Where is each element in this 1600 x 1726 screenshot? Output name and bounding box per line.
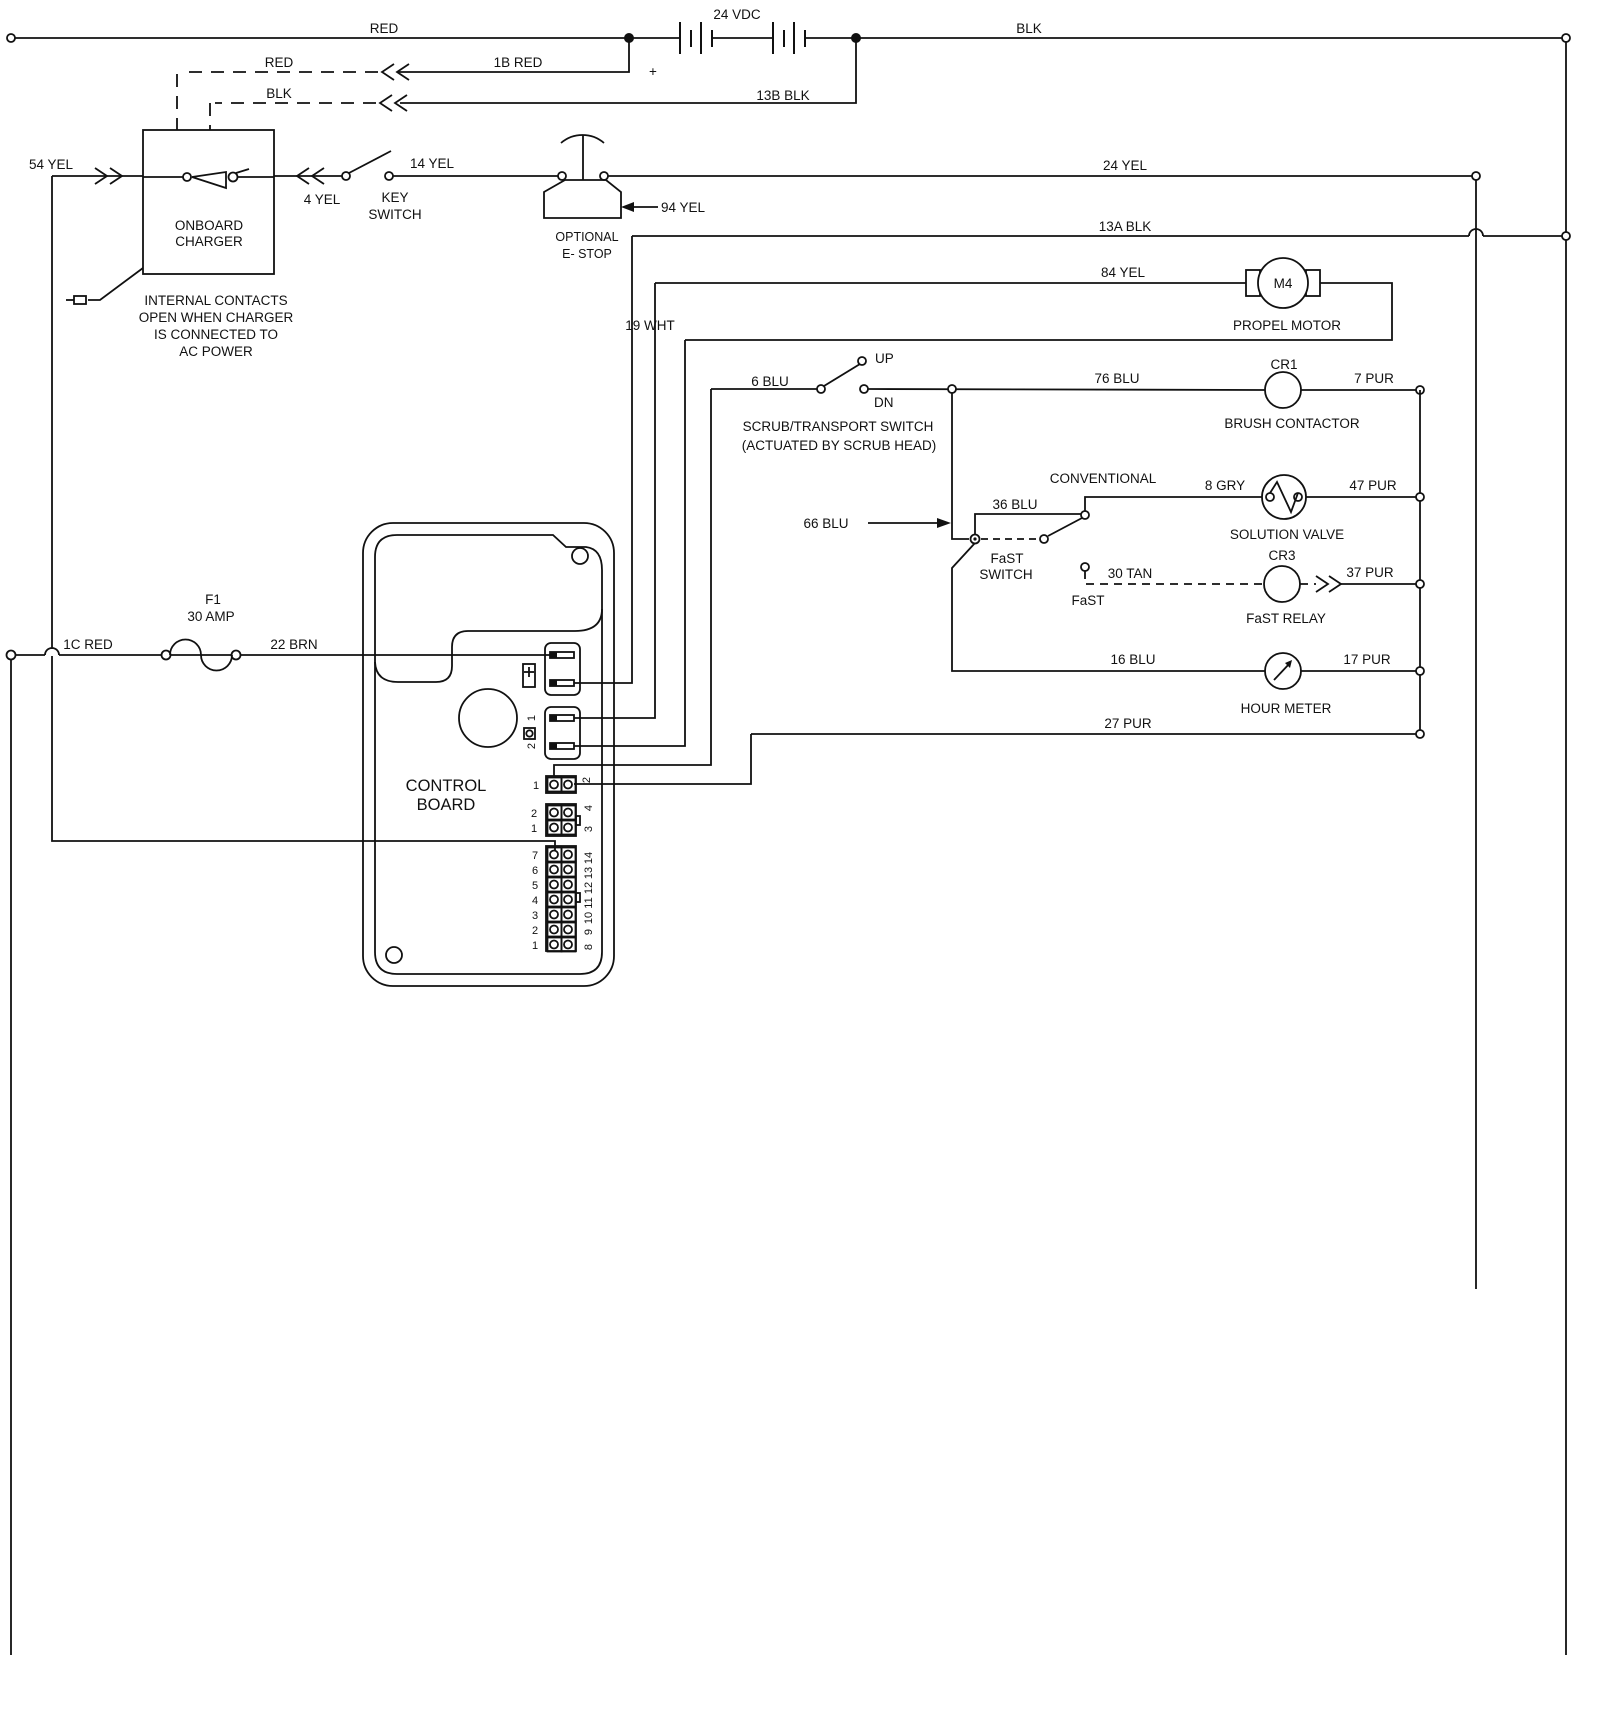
svg-text:4: 4 <box>583 805 595 811</box>
svg-text:7 PUR: 7 PUR <box>1354 371 1394 386</box>
svg-text:8 GRY: 8 GRY <box>1205 478 1245 493</box>
svg-text:3: 3 <box>532 910 538 922</box>
FaST relay coil CR3 <box>1264 566 1300 602</box>
svg-text:14 YEL: 14 YEL <box>410 156 455 171</box>
wire 14 YEL <box>393 175 558 177</box>
wire 24 YEL <box>608 175 1476 177</box>
wire 6 BLU <box>711 388 817 390</box>
svg-text:DN: DN <box>874 395 894 410</box>
wire 76 BLU <box>868 389 1265 390</box>
svg-text:12: 12 <box>583 882 595 894</box>
node 1C RED terminal <box>7 651 16 660</box>
svg-text:RED: RED <box>265 55 294 70</box>
node left top terminal <box>7 34 15 42</box>
svg-text:17 PUR: 17 PUR <box>1343 652 1391 667</box>
svg-text:OPEN WHEN CHARGER: OPEN WHEN CHARGER <box>139 310 294 325</box>
svg-text:SOLUTION VALVE: SOLUTION VALVE <box>1230 527 1344 542</box>
battery B2 24VDC <box>773 22 805 54</box>
battery B1 24VDC <box>680 22 712 54</box>
svg-text:4 YEL: 4 YEL <box>304 192 341 207</box>
svg-text:E- STOP: E- STOP <box>562 247 612 261</box>
svg-text:4: 4 <box>532 895 538 907</box>
wire RED dashed to charger <box>177 72 378 130</box>
svg-text:7: 7 <box>532 850 538 862</box>
svg-text:SWITCH: SWITCH <box>368 207 421 222</box>
svg-text:84 YEL: 84 YEL <box>1101 265 1146 280</box>
svg-text:BLK: BLK <box>1016 21 1042 36</box>
brush contactor coil CR1 <box>1265 372 1301 408</box>
svg-text:OPTIONAL: OPTIONAL <box>555 230 618 244</box>
wire 30 TAN FaST tap <box>1081 563 1089 571</box>
wire 24 YEL vertical bus <box>1475 180 1477 1289</box>
connector J1 <box>545 643 580 695</box>
wire 22 BRN <box>15 654 550 656</box>
wire 4 YEL chevrons <box>297 168 309 184</box>
wire BLK top bus right segment <box>805 37 1566 39</box>
wire 13B BLK chevrons <box>380 95 392 111</box>
LED symbol <box>524 728 535 739</box>
wire 84 YEL vertical to J2.1 <box>574 283 655 718</box>
scrub/transport switch S2 <box>817 385 825 393</box>
svg-text:CONVENTIONAL: CONVENTIONAL <box>1050 471 1157 486</box>
hour meter HM1 <box>1265 653 1301 689</box>
wire right border vertical 13 BLK bus <box>1565 42 1567 1655</box>
svg-text:13: 13 <box>583 867 595 879</box>
wire 13A BLK vertical to J1.2 <box>574 236 632 683</box>
svg-text:2: 2 <box>531 808 537 820</box>
wire 66 BLU pointer <box>868 522 938 524</box>
svg-text:BRUSH CONTACTOR: BRUSH CONTACTOR <box>1224 416 1360 431</box>
svg-text:+: + <box>649 64 657 79</box>
AC plug symbol <box>74 296 86 304</box>
connector J3 <box>546 776 576 793</box>
wire 94 YEL pointer <box>621 202 634 212</box>
propel motor M4 <box>1246 270 1260 296</box>
svg-text:22 BRN: 22 BRN <box>270 637 317 652</box>
svg-text:F1: F1 <box>205 592 221 607</box>
wire 19 WHT loop <box>685 283 1392 340</box>
svg-text:M4: M4 <box>1274 276 1293 291</box>
svg-text:CR3: CR3 <box>1268 548 1295 563</box>
svg-text:2: 2 <box>581 777 593 783</box>
wire 54 YEL chevrons <box>95 168 107 184</box>
key switch S1 <box>342 172 350 180</box>
wire 36 BLU <box>975 514 1081 535</box>
svg-text:16 BLU: 16 BLU <box>1110 652 1155 667</box>
svg-text:INTERNAL CONTACTS: INTERNAL CONTACTS <box>144 293 287 308</box>
wire 4 YEL <box>274 175 342 177</box>
svg-text:6: 6 <box>532 865 538 877</box>
solution valve SV1 <box>1262 475 1306 519</box>
svg-text:ONBOARD: ONBOARD <box>175 218 244 233</box>
svg-text:CR1: CR1 <box>1270 357 1297 372</box>
svg-text:13B BLK: 13B BLK <box>756 88 809 103</box>
svg-text:2: 2 <box>526 743 538 749</box>
svg-text:36 BLU: 36 BLU <box>992 497 1037 512</box>
mounting hole top right <box>572 548 588 564</box>
node 17 PUR junction <box>1416 667 1424 675</box>
svg-text:9: 9 <box>583 929 595 935</box>
node scrub DN junction <box>948 385 956 393</box>
node 24 YEL corner <box>1472 172 1480 180</box>
wire 6 BLU vertical to J3.1 <box>554 389 711 776</box>
svg-text:8: 8 <box>583 944 595 950</box>
svg-text:14: 14 <box>583 852 595 864</box>
node 13A BLK terminal <box>1562 232 1570 240</box>
wire 7 PUR <box>1301 389 1420 391</box>
connector J5 <box>546 846 576 951</box>
wire left border vertical <box>10 659 12 1655</box>
svg-text:66 BLU: 66 BLU <box>803 516 848 531</box>
wire 37 PUR <box>1300 583 1316 585</box>
wire 8 GRY <box>1085 497 1262 511</box>
svg-text:1: 1 <box>533 780 539 792</box>
svg-text:UP: UP <box>875 351 894 366</box>
svg-text:6 BLU: 6 BLU <box>751 374 789 389</box>
svg-text:FaST: FaST <box>990 551 1023 566</box>
hop 22 BRN over 54YEL vertical <box>45 649 59 656</box>
svg-text:CONTROL: CONTROL <box>406 777 487 795</box>
FaST switch S3 <box>981 538 1039 540</box>
wire 13B BLK <box>400 38 856 103</box>
wire 1B RED chevrons <box>382 64 394 80</box>
onboard charger box U10 <box>143 130 274 274</box>
svg-text:10: 10 <box>583 912 595 924</box>
svg-text:30 AMP: 30 AMP <box>187 609 234 624</box>
optional E-stop switch <box>558 172 566 180</box>
svg-text:CHARGER: CHARGER <box>175 234 243 249</box>
wire 17 PUR <box>1301 670 1420 672</box>
node 37 PUR junction <box>1416 580 1424 588</box>
wire 54 YEL <box>52 175 143 177</box>
wire 54 YEL vertical drop <box>52 176 555 850</box>
hop 13A BLK over 24YEL bus <box>1469 229 1483 236</box>
svg-text:13A BLK: 13A BLK <box>1099 219 1152 234</box>
svg-text:54 YEL: 54 YEL <box>29 157 74 172</box>
svg-text:SCRUB/TRANSPORT SWITCH: SCRUB/TRANSPORT SWITCH <box>743 419 934 434</box>
node 7 PUR junction <box>1416 386 1424 394</box>
connector J4 <box>546 804 576 836</box>
svg-text:24 VDC: 24 VDC <box>713 7 761 22</box>
svg-text:1B RED: 1B RED <box>494 55 543 70</box>
wire 27 PUR <box>751 733 1420 735</box>
control board inner outline with notch <box>375 535 602 974</box>
wire 66 BLU vertical from scrub DN <box>952 393 969 539</box>
svg-text:FaST RELAY: FaST RELAY <box>1246 611 1326 626</box>
node 47 PUR junction <box>1416 493 1424 501</box>
wire 16 BLU <box>952 543 1265 671</box>
svg-text:HOUR METER: HOUR METER <box>1241 701 1332 716</box>
wire 47 PUR <box>1306 496 1420 498</box>
svg-text:(ACTUATED BY SCRUB HEAD): (ACTUATED BY SCRUB HEAD) <box>742 438 937 453</box>
charger internal contact <box>143 176 183 178</box>
wire AC plug lead <box>88 268 143 300</box>
svg-text:5: 5 <box>532 880 538 892</box>
node junction battery positive tap <box>624 33 634 43</box>
capacitor circle <box>459 689 517 747</box>
wire 84 YEL <box>655 282 1246 284</box>
wire 1B RED <box>397 38 629 72</box>
svg-text:BOARD: BOARD <box>417 796 476 814</box>
svg-text:24 YEL: 24 YEL <box>1103 158 1148 173</box>
svg-text:RED: RED <box>370 21 399 36</box>
svg-text:KEY: KEY <box>381 190 408 205</box>
mounting hole bottom left <box>386 947 402 963</box>
control board outer outline <box>363 523 614 986</box>
svg-text:3: 3 <box>583 826 595 832</box>
wire PUR bus vertical <box>1419 390 1421 734</box>
wire battery link <box>712 37 773 39</box>
wire 19 WHT vertical to J2.2 <box>574 340 685 746</box>
svg-text:94 YEL: 94 YEL <box>661 200 706 215</box>
control board lobe curve <box>375 609 602 682</box>
svg-text:1: 1 <box>532 940 538 952</box>
node 27 PUR junction <box>1416 730 1424 738</box>
fuse F1 30 AMP <box>162 651 171 660</box>
svg-text:1C RED: 1C RED <box>63 637 113 652</box>
svg-text:FaST: FaST <box>1071 593 1104 608</box>
svg-text:PROPEL MOTOR: PROPEL MOTOR <box>1233 318 1341 333</box>
connector J2 <box>545 707 580 759</box>
wire 27 PUR vertical to J3.2 <box>574 734 751 784</box>
svg-text:30 TAN: 30 TAN <box>1108 566 1153 581</box>
node junction battery negative tap <box>851 33 861 43</box>
svg-text:11: 11 <box>583 897 595 908</box>
node right top terminal <box>1562 34 1570 42</box>
svg-text:2: 2 <box>532 925 538 937</box>
polarity + box <box>523 664 535 687</box>
svg-text:AC POWER: AC POWER <box>179 344 253 359</box>
svg-text:27 PUR: 27 PUR <box>1104 716 1152 731</box>
svg-text:IS CONNECTED TO: IS CONNECTED TO <box>154 327 278 342</box>
svg-text:47 PUR: 47 PUR <box>1349 478 1397 493</box>
wire RED top bus left segment <box>11 38 679 42</box>
svg-text:76 BLU: 76 BLU <box>1094 371 1139 386</box>
svg-text:37 PUR: 37 PUR <box>1346 565 1394 580</box>
svg-text:1: 1 <box>531 823 537 835</box>
svg-text:19 WHT: 19 WHT <box>625 318 675 333</box>
wire BLK dashed to charger <box>210 103 376 130</box>
svg-text:BLK: BLK <box>266 86 292 101</box>
svg-text:1: 1 <box>526 715 538 721</box>
node FaST switch common <box>971 535 980 544</box>
svg-text:SWITCH: SWITCH <box>979 567 1032 582</box>
wire 13A BLK <box>632 235 1562 237</box>
